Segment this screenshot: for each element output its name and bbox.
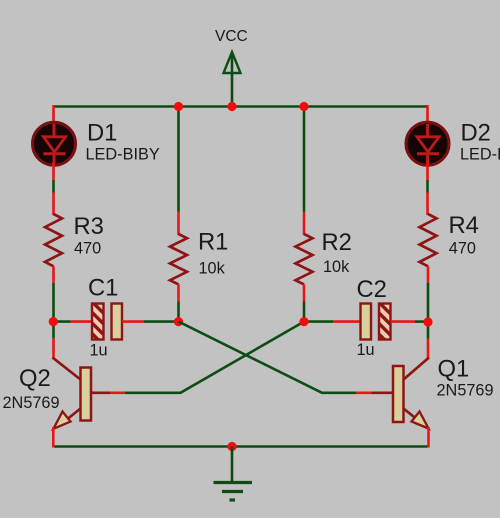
resistor R3 (45, 214, 62, 266)
svg-text:Q1: Q1 (438, 356, 470, 383)
ground symbol (214, 447, 253, 501)
pin: R3 bottom (52, 266, 55, 283)
wire: VCC stub dot (227, 102, 236, 111)
junction dot: ground at bottom rail (227, 442, 236, 451)
pin: Q1 base outer (356, 391, 372, 394)
junction node B (R1/C1/cross wire) (174, 317, 183, 326)
svg-text:2N5769: 2N5769 (3, 394, 60, 412)
LED D2 (406, 122, 449, 165)
svg-text:LED-BIBY: LED-BIBY (86, 146, 160, 164)
wire: node B to Q1 base (diagonal cross) (179, 322, 357, 393)
pin: Q2 collector (52, 338, 55, 359)
wire: node C to Q2 base (diagonal cross) (125, 322, 304, 393)
wire: R2 to node C (303, 302, 306, 322)
pin: D2 cathode (426, 162, 429, 180)
resistor R4 (420, 214, 437, 266)
transistor Q2 (53, 358, 111, 429)
resistor R1 (170, 234, 187, 284)
svg-text:R4: R4 (449, 212, 479, 239)
svg-text:10k: 10k (323, 258, 350, 276)
svg-text:10k: 10k (199, 260, 226, 278)
svg-text:D2: D2 (461, 120, 491, 147)
wire: node C to C2 (304, 320, 333, 323)
wire: node A to C1 (54, 320, 71, 323)
svg-text:R1: R1 (198, 229, 228, 256)
pin: D2 anode (426, 105, 429, 133)
wire: R4 to node D (427, 283, 430, 339)
pin: Q2 base outer (110, 391, 125, 394)
pin: R1 top (177, 212, 180, 236)
wire: bottom emitter rail (54, 445, 428, 448)
svg-text:C1: C1 (88, 275, 118, 302)
svg-text:1u: 1u (357, 341, 375, 359)
svg-text:470: 470 (449, 240, 476, 258)
pin: R2 top (303, 212, 306, 236)
svg-text:VCC: VCC (215, 28, 248, 45)
svg-text:2N5769: 2N5769 (437, 382, 494, 400)
pin: R3 top (52, 193, 55, 216)
pin: D1 cathode (52, 162, 55, 180)
pin: C2 right (391, 320, 416, 323)
pin: C1 left (71, 320, 93, 323)
junction node C (R2/C2/cross wire) (299, 317, 308, 326)
wire: R1 to node B (177, 302, 180, 322)
wire: C1 to node B (144, 320, 179, 323)
wire: R3 to node A (52, 283, 55, 338)
svg-text:R2: R2 (322, 229, 352, 256)
svg-text:470: 470 (74, 240, 101, 258)
resistor R2 (296, 234, 313, 284)
junction dot: R1 at VCC rail (174, 102, 183, 111)
junction dot: R2 at VCC rail (299, 102, 308, 111)
pin: R1 bottom (177, 284, 180, 301)
pin: R4 bottom (427, 266, 430, 283)
svg-text:R3: R3 (74, 213, 104, 240)
svg-text:1u: 1u (90, 342, 108, 360)
wire: D2 to R4 (426, 180, 429, 193)
wire: R2 column (303, 107, 306, 212)
pin: C2 left (333, 320, 361, 323)
capacitor C1 (92, 304, 122, 340)
wire: top VCC rail (54, 105, 429, 108)
wire: R1 column (177, 107, 180, 212)
capacitor C2 (361, 304, 391, 340)
LED D1 (33, 122, 76, 165)
pin: D1 anode (52, 105, 55, 133)
svg-text:Q2: Q2 (19, 365, 51, 392)
svg-text:D1: D1 (87, 120, 117, 147)
pin: R2 bottom (303, 284, 306, 301)
junction node A (R3/C1/Q2 collector) (49, 317, 58, 326)
transistor Q1 (372, 358, 430, 429)
svg-text:LED-BIBY: LED-BIBY (460, 146, 500, 164)
power symbol VCC (224, 52, 241, 107)
junction node D (R4/C2/Q1 collector) (423, 317, 432, 326)
wire: C2 to node D (415, 320, 428, 323)
pin: R4 top (426, 193, 429, 216)
pin: Q1 emitter (427, 427, 430, 448)
pin: Q1 collector (427, 339, 430, 359)
svg-text:C2: C2 (357, 276, 387, 303)
pin: C1 right (122, 320, 144, 323)
wire: D1 to R3 (52, 180, 55, 193)
pin: Q2 emitter (52, 427, 55, 448)
